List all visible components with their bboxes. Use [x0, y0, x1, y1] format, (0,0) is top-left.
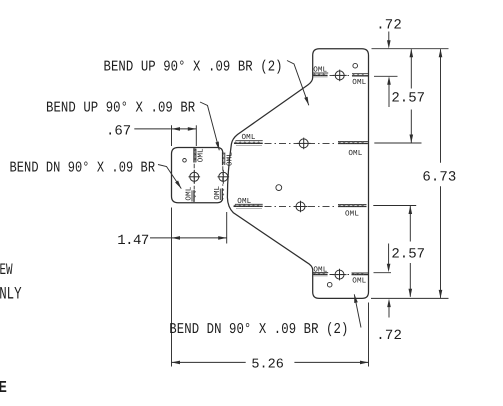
hole tab [183, 159, 187, 163]
dimension 2.57 bottom line [409, 206, 411, 242]
svg-text:.72: .72 [376, 17, 402, 33]
svg-text:5.26: 5.26 [251, 358, 283, 373]
leader BEND UP (2) [287, 61, 309, 106]
svg-text:2.57: 2.57 [391, 246, 425, 262]
bend center symbol tab-2 [218, 170, 230, 184]
bend center symbol bottom [333, 269, 347, 281]
hole bottom (plate) [327, 282, 332, 287]
svg-text:.67: .67 [106, 124, 131, 140]
hole top (plate) [353, 63, 358, 68]
dimension .72 top upper arrow [388, 32, 390, 46]
bend line tab-1 - top segment and OML label [193, 148, 195, 162]
dimension .72 bottom upper arrow [388, 244, 390, 269]
svg-text:OML: OML [348, 149, 362, 158]
svg-text:OML: OML [313, 266, 327, 275]
wire part-outline main plate with taper and neck [227, 49, 368, 299]
dimension 5.26 line right [294, 361, 368, 363]
dimension 2.57 top arrows [410, 49, 414, 58]
svg-text:NLY: NLY [0, 284, 22, 304]
bend line tab-2 - top segment and OML label [222, 152, 224, 165]
svg-text:1.47: 1.47 [117, 233, 149, 249]
svg-text:OML: OML [226, 152, 235, 166]
svg-text:OML: OML [352, 277, 366, 286]
extension line tab-left upper [171, 125, 173, 146]
bend centerline tab-2 [222, 166, 224, 187]
extension line bottom bend [374, 272, 392, 274]
dimension 5.26 line left [172, 361, 246, 363]
bend line mid-upper - right OML segment and label [338, 141, 368, 143]
dimension 2.57 top line [410, 49, 412, 88]
dimension .67 arrow left [172, 127, 181, 131]
bend center symbol top [333, 70, 347, 82]
bend center symbol tab-1 [189, 170, 201, 184]
extension line mid-upper bend [374, 142, 421, 144]
svg-text:BEND DN 90° X .09 BR (2): BEND DN 90° X .09 BR (2) [169, 321, 348, 338]
dimension 5.26 arrow left [172, 361, 181, 365]
bend line tab-1 - bottom segment and OML label [193, 190, 195, 202]
bend line bottom - right OML segment and label [352, 272, 369, 274]
svg-text:OML: OML [196, 148, 205, 162]
dimension 6.73 arrows [439, 49, 443, 58]
dimension .67 arrow right [188, 127, 197, 131]
extension line tab-left mid [171, 208, 173, 367]
dimension 1.47 arrow left [172, 236, 181, 240]
svg-text:BEND DN 90° X .09 BR: BEND DN 90° X .09 BR [10, 159, 156, 176]
bend centerline bottom [330, 274, 351, 276]
svg-text:OML: OML [345, 209, 359, 218]
extension line top bend [374, 75, 398, 77]
svg-text:6.73: 6.73 [422, 169, 456, 185]
bend line tab-2 - bottom segment and OML label [221, 188, 223, 200]
extension line mid-lower bend [373, 205, 416, 207]
bend line mid-lower - right OML segment and label [338, 204, 367, 206]
svg-text:E: E [0, 379, 7, 396]
dimension 2.57 bottom arrows [409, 206, 413, 215]
svg-text:OML: OML [213, 185, 222, 199]
dimension .72 top lower arrow [388, 80, 390, 107]
svg-text:EW: EW [0, 261, 13, 279]
dimension .72 bottom lower arrow [388, 303, 390, 318]
extension line plate-right lower [368, 303, 370, 367]
dimension 1.47 arrow right [218, 236, 227, 240]
bend line top - right OML segment and label [352, 73, 368, 75]
dimension 1.47 leader [150, 237, 172, 239]
bend centerline mid-upper [265, 142, 337, 144]
extension line bottom edge [371, 297, 449, 299]
extension line bend1 upper [195, 125, 197, 146]
bend centerline mid-lower [265, 205, 337, 207]
svg-text:BEND UP 90° X .09 BR (2): BEND UP 90° X .09 BR (2) [104, 58, 283, 75]
svg-text:BEND UP 90° X .09 BR: BEND UP 90° X .09 BR [46, 100, 195, 117]
dimension .67 line [172, 128, 197, 130]
dimension 1.47 line [172, 237, 227, 239]
svg-text:OML: OML [184, 186, 193, 200]
svg-text:OML: OML [352, 78, 366, 87]
extension line top edge [372, 48, 449, 50]
wire part-outline left tab [172, 148, 223, 203]
dimension 6.73 line [440, 49, 442, 163]
bend centerline top [330, 74, 352, 76]
leader BEND DN (2) [354, 294, 361, 327]
bend centerline tab-1 [193, 164, 195, 190]
dimension .67 leader [134, 128, 171, 130]
leader BEND DN [158, 165, 181, 189]
svg-text:2.57: 2.57 [391, 91, 425, 107]
bend center symbol mid-lower [294, 201, 308, 213]
hole middle (taper) [276, 185, 282, 191]
bend center symbol mid-upper [297, 138, 311, 150]
svg-text:.72: .72 [376, 328, 402, 344]
dimension 5.26 arrow right [360, 361, 369, 365]
leader BEND UP [200, 102, 219, 150]
extension line neck [226, 212, 228, 244]
